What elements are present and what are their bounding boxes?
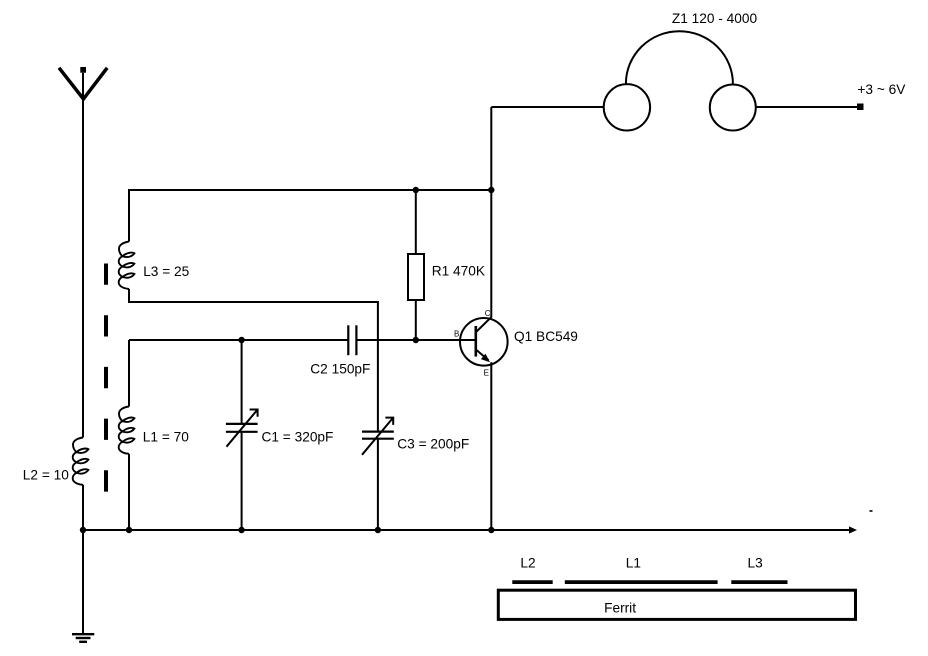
svg-text:L1 = 70: L1 = 70	[143, 430, 189, 445]
winding L1 bar	[565, 580, 718, 584]
wire ground rail	[83, 529, 850, 531]
wire emitter down to rail	[490, 362, 492, 530]
capacitor C1 (variable)	[226, 424, 258, 432]
svg-text:C3 = 200pF: C3 = 200pF	[397, 436, 469, 451]
svg-text:L2 = 10: L2 = 10	[23, 468, 69, 483]
svg-text:B: B	[454, 330, 459, 339]
minus mark	[870, 510, 873, 512]
svg-text:Z1 120 - 4000: Z1 120 - 4000	[672, 11, 758, 26]
transistor Q1	[460, 318, 508, 366]
wire node A down to C1 top plate	[241, 340, 243, 424]
svg-text:C2 150pF: C2 150pF	[310, 362, 370, 377]
junction L1 rail	[126, 527, 132, 533]
inductor L1	[119, 407, 135, 454]
wire collector node to headphones	[491, 106, 603, 108]
wire C1 bottom plate to rail	[241, 432, 243, 530]
wire antenna to L2 top	[82, 73, 84, 438]
junction collector node	[488, 187, 494, 193]
svg-text:C: C	[485, 309, 491, 318]
svg-text:Ferrit: Ferrit	[604, 601, 636, 616]
junction C3 rail	[375, 527, 381, 533]
supply terminal +3 ~ 6V	[857, 104, 864, 111]
wire top rail to R1	[415, 190, 417, 254]
svg-text:L1: L1	[626, 556, 641, 571]
winding L2 bar	[512, 580, 552, 584]
svg-text:Q1 BC549: Q1 BC549	[514, 329, 578, 344]
wire node A to C2 left plate	[129, 339, 348, 341]
wire L2 bottom to ground	[82, 485, 84, 633]
junction C1 rail	[238, 527, 244, 533]
svg-text:L3: L3	[748, 556, 764, 571]
svg-text:C1 = 320pF: C1 = 320pF	[262, 430, 334, 445]
wire headphones to supply terminal	[756, 106, 857, 108]
wire L3 bottom to C3 top	[129, 289, 378, 432]
wire L3 top to collector node	[129, 190, 491, 242]
wire C3 bottom plate to rail	[377, 439, 379, 530]
winding L3 bar	[731, 580, 787, 584]
wire L1 bottom to rail	[128, 454, 130, 530]
inductor L3	[119, 242, 135, 289]
wire node A to L1 top	[128, 340, 130, 407]
ferrite core (dashed)	[104, 264, 108, 492]
wire R1 to base node	[415, 300, 417, 340]
wire C2 right plate to base	[356, 339, 474, 341]
junction R1 bottom / base node	[413, 337, 419, 343]
antenna	[59, 68, 107, 99]
resistor R1	[408, 254, 424, 300]
junction emitter rail	[488, 527, 494, 533]
svg-text:L2: L2	[520, 556, 535, 571]
capacitor C3 (variable)	[362, 432, 394, 439]
capacitor C2	[348, 325, 356, 355]
junction R1 top	[413, 187, 419, 193]
ferrite bar	[498, 590, 855, 619]
junction node A / C1 tap	[238, 337, 244, 343]
wire collector up to headphone node	[490, 107, 492, 317]
ground	[72, 634, 94, 642]
svg-text:R1 470K: R1 470K	[432, 264, 485, 279]
inductor L2	[73, 438, 89, 485]
svg-text:+3 ~ 6V: +3 ~ 6V	[857, 82, 906, 97]
junction antenna rail	[80, 527, 86, 533]
svg-text:E: E	[484, 368, 489, 377]
svg-text:L3 = 25: L3 = 25	[143, 264, 189, 279]
headphones Z1	[604, 84, 650, 130]
